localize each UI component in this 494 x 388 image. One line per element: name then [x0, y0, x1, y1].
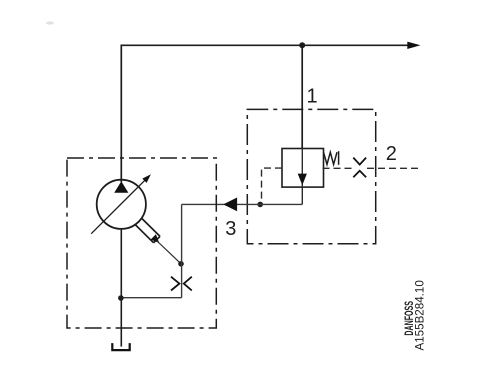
- enclosure box: pump assembly (dash-dot): [67, 158, 216, 328]
- wire: bottom horizontal link to pump case: [121, 297, 182, 299]
- wire: top supply line P (horizontal): [121, 44, 410, 46]
- valve body square U1: [282, 149, 324, 188]
- wire: horizontal line from valve outlet to pump control (port 3): [182, 203, 303, 205]
- spring of relief valve: [324, 152, 338, 164]
- arrowhead: downward flow inside valve: [298, 174, 307, 186]
- plugged port symbol on vertical line (left chevron): [171, 277, 179, 291]
- tank / reservoir symbol: [112, 343, 129, 350]
- control actuator cylinder (rotated rectangle): [142, 218, 161, 236]
- pump outlet triangle (energy direction up): [114, 181, 128, 193]
- pilot line: dashed LS line to port 2: [323, 167, 353, 169]
- wire: vertical control/drain line: [181, 204, 183, 297]
- svg-text:2: 2: [386, 143, 397, 165]
- wire: vertical line from junction down to relief valve port 1: [301, 45, 303, 148]
- wire: vertical riser from pump to top line: [120, 45, 122, 183]
- wire: flow path through valve square: [301, 149, 303, 205]
- pump P1: circle: [97, 180, 146, 229]
- plugged port symbol on vertical line (right chevron): [184, 277, 192, 291]
- plugged port symbol on port 2 line (lower chevron): [353, 171, 366, 177]
- wire: thin control line from actuator to junction: [157, 241, 182, 264]
- pilot line: dashed sensing line left of valve: [262, 168, 283, 202]
- svg-text:1: 1: [307, 86, 318, 108]
- node: junction dot on top line above valve: [299, 42, 305, 48]
- enclosure box: compensator valve (dash-dot): [247, 109, 375, 243]
- svg-text:3: 3: [225, 218, 236, 240]
- svg-text:A155B284.10: A155B284.10: [413, 280, 426, 350]
- variable displacement arrow through pump: [91, 179, 146, 234]
- plugged port symbol on port 2 line (upper chevron): [353, 158, 366, 165]
- faint smudge top-left: [46, 21, 54, 24]
- arrowhead: flow toward pump control, pointing left: [223, 198, 237, 212]
- node: junction dot under pump: [118, 295, 124, 301]
- arrowhead: outlet flow direction right: [407, 42, 420, 49]
- wire: pump case drain down to tank: [120, 229, 122, 347]
- arrowhead inside actuator pointing outward: [151, 234, 160, 243]
- node: junction dot on control line: [178, 261, 184, 267]
- node: junction dot on drain line: [257, 202, 263, 208]
